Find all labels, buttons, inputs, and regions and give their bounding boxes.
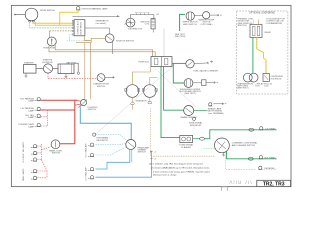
svg-text:R.H. REAR: R.H. REAR — [265, 156, 276, 159]
rear lamp row3 lamp — [258, 166, 275, 170]
overdrive solenoid coils — [243, 73, 258, 82]
wire wiper lead arrow — [206, 82, 218, 84]
wire blue dimmer second pole — [131, 149, 133, 162]
svg-text:HORN PUSH: HORN PUSH — [43, 48, 56, 50]
starter motor — [24, 61, 37, 77]
wire green fuse to flasher — [161, 67, 180, 138]
svg-text:INDICATOR: INDICATOR — [97, 139, 109, 142]
side lamp 4 — [31, 169, 37, 172]
overdrive solenoid box — [263, 73, 283, 81]
generator lower connectors — [131, 97, 152, 109]
wire starter to solenoid — [36, 68, 43, 70]
wire red dashed side lamps — [37, 144, 41, 160]
wire relay top stubs — [254, 20, 259, 25]
svg-text:LAMP: LAMP — [28, 125, 34, 128]
svg-text:SWITCH: SWITCH — [138, 152, 147, 154]
side lamp 5 — [31, 176, 37, 179]
ignition coil — [140, 19, 155, 29]
fuel gauge — [186, 60, 219, 73]
headlamp 3 — [88, 167, 94, 170]
overdrive lower note — [237, 82, 272, 89]
parking lamp 1 — [20, 97, 41, 102]
wire red main vertical — [60, 100, 75, 144]
svg-text:IGNITION SWITCH: IGNITION SWITCH — [116, 41, 135, 43]
svg-text:LAMP: LAMP — [28, 109, 34, 112]
rear lamp row2 lamp — [259, 156, 276, 160]
starter solenoid switch — [42, 59, 53, 73]
svg-text:(like) just lacks a charge: (like) just lacks a charge — [153, 174, 177, 177]
svg-text:CONTROL BOX: CONTROL BOX — [78, 20, 80, 34]
wire blue headlamp4 run — [95, 151, 151, 177]
svg-text:(see TERMINAL): (see TERMINAL) — [208, 112, 224, 115]
label see text — [175, 34, 186, 38]
svg-text:L & R SIDE / TAIL LAMPS: L & R SIDE / TAIL LAMPS — [22, 141, 25, 163]
wire ignition switch down — [112, 42, 114, 54]
wire tan control box to ignition switch — [76, 36, 105, 43]
headlamp 2 — [88, 153, 94, 156]
wire ignition switch to control box — [85, 28, 110, 34]
wire brake lamp arrow — [214, 103, 227, 105]
overdrive left note — [238, 18, 253, 27]
side lamp 3 — [31, 158, 37, 161]
high beam indicator lamp — [93, 133, 109, 142]
wire tan generator loop — [132, 67, 150, 85]
svg-text:AND SWITCH: AND SWITCH — [183, 23, 197, 26]
svg-text:R.H. HEADLAMP: R.H. HEADLAMP — [85, 143, 88, 158]
svg-text:(SEE TEXT): (SEE TEXT) — [237, 88, 249, 90]
fuse box — [138, 57, 172, 67]
svg-text:AND FLASHER SWITCH: AND FLASHER SWITCH — [232, 144, 256, 147]
wire starter push lead — [105, 76, 114, 78]
svg-text:DISTRIBUTOR: DISTRIBUTOR — [128, 29, 143, 31]
wire yellow warning lamp feed — [60, 10, 78, 25]
wire yellow horn to control box upper — [33, 22, 73, 23]
svg-text:FUEL GAUGE & SENDER: FUEL GAUGE & SENDER — [194, 69, 219, 72]
side lamp 1 — [31, 145, 37, 148]
svg-text:LAMP: LAMP — [28, 116, 34, 119]
svg-text:BATTERY: BATTERY — [67, 61, 77, 64]
overdrive relay — [250, 25, 272, 38]
wire green dashed horn to control box — [30, 22, 73, 28]
headlamp 4 — [88, 176, 94, 179]
wire dashed green switch down — [225, 152, 256, 169]
spark lead arrow — [156, 13, 158, 15]
svg-text:FUSE BOX: FUSE BOX — [138, 62, 149, 64]
wire yellow tracer dashes — [257, 39, 266, 73]
optional overdrive dashed box — [236, 11, 288, 94]
wire fuel gauge to sender — [194, 61, 212, 64]
wire dark terminal 6 drop — [70, 35, 73, 42]
notes text — [149, 163, 210, 177]
signature marks — [230, 181, 252, 184]
wire distributor to coil top — [131, 15, 154, 19]
ignition switch — [105, 34, 134, 43]
svg-text:SWITCH: SWITCH — [52, 153, 61, 155]
wire red dashed to panel switch — [41, 147, 51, 150]
spark plug leads dashed — [135, 13, 150, 15]
svg-text:LOW AMMETER): LOW AMMETER) — [266, 22, 283, 25]
wire blue dashed headlamp1 — [95, 143, 126, 145]
svg-text:INDICATOR: INDICATOR — [190, 124, 202, 127]
wire red lamp1 to switch — [41, 99, 78, 101]
wire red lamp2 to switch — [41, 109, 75, 111]
wire yellow to control box lower — [36, 22, 73, 25]
svg-text:+ 3: + 3 — [154, 159, 156, 161]
wire row1 arrow — [275, 129, 277, 131]
parking lamp 4 — [18, 123, 41, 128]
svg-text:FLASHER: FLASHER — [181, 146, 191, 149]
control box terminals — [73, 20, 75, 35]
svg-text:SWITCH: SWITCH — [88, 109, 97, 111]
svg-text:L.H. REAR: L.H. REAR — [265, 127, 276, 130]
wire green fuse to brake switch — [164, 67, 184, 111]
bottom bracket mark — [222, 187, 228, 191]
wire dashed green indicator link — [204, 147, 215, 149]
wire tan lighting switch up pair — [85, 43, 91, 100]
generator detail — [125, 85, 157, 103]
svg-text:PANEL LAMPS: PANEL LAMPS — [22, 168, 25, 181]
svg-text:IGNITION WARNING LAMP: IGNITION WARNING LAMP — [82, 7, 109, 10]
battery — [58, 61, 77, 77]
wire tan dashed horn push to control box — [50, 30, 73, 32]
svg-text:+ 3: + 3 — [154, 152, 156, 154]
wiper motor centre — [179, 79, 201, 96]
wire solenoid to battery — [53, 68, 58, 70]
svg-text:SWITCH ): SWITCH ) — [238, 25, 248, 27]
parking lamp 2 — [20, 107, 40, 112]
wire blue dashed high beam indicator — [96, 135, 127, 141]
svg-text:Use brakes (AVAILABLE) up to T: Use brakes (AVAILABLE) up to TR3 switch.… — [151, 166, 210, 169]
turn signal switch — [215, 138, 259, 153]
wire green wiper feed — [180, 14, 185, 31]
wire row2 arrow — [275, 158, 277, 160]
wire green fuse to fuel gauge — [172, 62, 186, 64]
battery feed ring terminal — [77, 72, 79, 74]
wire red dashed tail branch — [41, 110, 48, 126]
wire blue dashed to wiper — [67, 40, 88, 42]
control box — [74, 20, 85, 36]
svg-text:LAMP: LAMP — [28, 100, 34, 103]
washer pump motor — [199, 12, 215, 26]
svg-text:COIL: COIL — [145, 24, 151, 26]
svg-text:L.H. HEADLAMP: L.H. HEADLAMP — [85, 167, 88, 181]
wire green relay to solenoid — [252, 38, 254, 74]
horn push switch — [43, 37, 56, 50]
svg-text:(see detail): (see detail) — [96, 22, 107, 25]
svg-text:BRAKE SWITCH: BRAKE SWITCH — [181, 116, 197, 119]
starter push switch — [93, 74, 109, 88]
headlamp 1 — [88, 143, 94, 146]
wire yellow relay to solenoid — [257, 38, 266, 74]
generator detail pointer arrow — [73, 15, 120, 25]
wire horn lead — [14, 14, 25, 16]
wire brake switch to lamp — [194, 110, 208, 112]
wire blue lighting switch to dimmer — [80, 107, 131, 140]
turn signal flasher — [179, 136, 194, 149]
wire diagonal gray a — [97, 67, 172, 133]
svg-text:COIL: COIL — [255, 86, 261, 88]
side lamp 2 — [31, 151, 37, 154]
panel light switch — [49, 140, 63, 155]
wire red dashed panel lamps — [37, 160, 47, 178]
svg-text:(OPTIONAL): (OPTIONAL) — [201, 23, 213, 26]
wire washer lead arrow — [210, 14, 222, 16]
wire coil bottom stub — [152, 29, 154, 33]
svg-text:SWITCH: SWITCH — [97, 86, 106, 88]
svg-text:COIL: COIL — [264, 86, 270, 88]
turn signal indicator lamp — [189, 117, 204, 127]
svg-text:GENERATOR: GENERATOR — [135, 100, 147, 103]
wire green fuse down to wiper — [173, 63, 184, 83]
wiper motor top — [182, 12, 198, 26]
rear lamp row2 connector — [248, 157, 253, 160]
svg-text:RELAY: RELAY — [264, 31, 271, 34]
headlamp dimmer switch — [126, 140, 150, 154]
wire gray feed to fuse box — [163, 29, 165, 57]
terminal marks blue run — [150, 151, 152, 159]
wiper connector box — [193, 80, 206, 86]
brake lamp — [208, 103, 224, 115]
wire tan generator field — [150, 78, 158, 85]
wire red dashed solenoid to starter push — [48, 73, 97, 78]
svg-text:LUCAS RB106: LUCAS RB106 — [80, 22, 83, 35]
wire brown double to fuse box lower — [49, 46, 155, 57]
svg-text:TR2, TR3: TR2, TR3 — [263, 181, 285, 187]
wire tan dashed main harness — [150, 109, 214, 157]
flasher connector — [193, 137, 205, 140]
wire tan horn push up — [49, 31, 51, 38]
wire row3 dashed tail — [264, 168, 277, 170]
horn — [25, 8, 55, 22]
svg-text:(SEE TEXT): (SEE TEXT) — [184, 93, 196, 95]
distributor — [125, 18, 143, 30]
rear lamp row1 connector — [249, 128, 254, 131]
wire green switch to rh rear — [227, 152, 275, 159]
wire tan dashed harness left — [149, 155, 151, 157]
ground turn signal switch — [222, 153, 225, 156]
wire wiper to washer — [194, 14, 202, 16]
wire brown double to fuse box upper — [55, 44, 152, 57]
svg-text:SOLENOID: SOLENOID — [271, 78, 282, 80]
brake switch — [181, 106, 197, 120]
ignition warning lamp — [76, 7, 108, 11]
svg-text:As in 10/2007, only TR3. See d: As in 10/2007, only TR3. See diagram of … — [149, 163, 203, 166]
svg-text:STARTER: STARTER — [24, 61, 34, 64]
svg-text:HORN SWITCH: HORN SWITCH — [40, 10, 55, 12]
wire blue dashed headlamp2 — [95, 147, 126, 155]
svg-text:SOLENOID: SOLENOID — [42, 62, 53, 64]
wire diagonal gray b — [153, 67, 196, 108]
title block — [257, 180, 291, 187]
wire battery feed hook — [74, 63, 78, 72]
rear lamp row1 lamp — [259, 127, 275, 131]
lighting switch — [75, 100, 98, 112]
wire green flasher to rear circuit — [204, 130, 274, 139]
svg-text:OPTIONAL OVERDRIVE: OPTIONAL OVERDRIVE — [249, 11, 275, 14]
wire blue dimmer to headlamp3 — [95, 149, 129, 169]
svg-text:(SECTION): (SECTION) — [175, 36, 186, 38]
parking lamp 3 — [25, 114, 41, 119]
wire green dashed indicator link — [193, 121, 195, 130]
svg-text:If main switches side wrong, g: If main switches side wrong, goes TRAVEL… — [153, 170, 211, 173]
overdrive right note — [266, 18, 286, 24]
